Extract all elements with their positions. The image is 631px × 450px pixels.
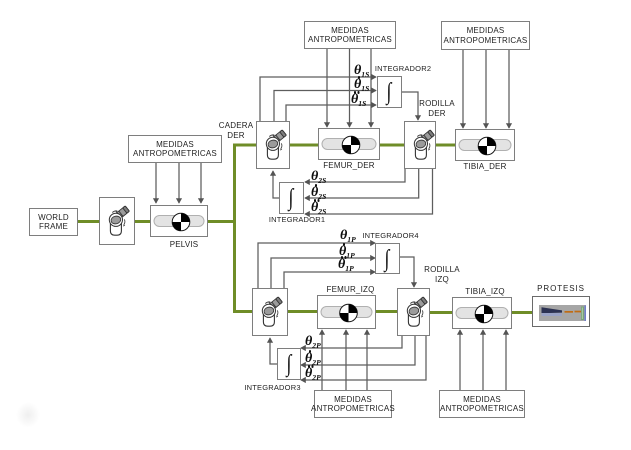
- label theta2S b: [311, 186, 326, 201]
- block TIBIA_DER body: [455, 129, 515, 161]
- block INTEGRADOR3: [277, 348, 301, 380]
- wire integrador3 to hip IZQ: [270, 338, 277, 364]
- green wire joint0 to pelvis: [135, 220, 150, 223]
- label TIBIA_DER: [455, 162, 515, 172]
- block PELVIS body: [150, 205, 208, 237]
- block knee DER joint: [404, 121, 436, 169]
- green wire pelvis to trunk split: [208, 220, 235, 223]
- label PELVIS: [155, 240, 213, 250]
- green wire world frame to joint0: [78, 220, 99, 223]
- block MEDIDAS femur IZQ: [314, 390, 392, 418]
- block hip IZQ joint: [252, 288, 288, 336]
- wires hip DER sensors to integrador2: [260, 77, 376, 121]
- label TIBIA_IZQ: [455, 287, 515, 297]
- wires medidas5 to tibia IZQ: [460, 330, 506, 390]
- label theta1S a: [354, 64, 369, 79]
- label CADERA DER: [217, 121, 255, 142]
- block FEMUR_IZQ body: [317, 295, 376, 329]
- wires medidas3 to pelvis: [156, 163, 201, 203]
- label FEMUR_IZQ: [321, 285, 380, 295]
- wires knee IZQ sensors to integrador3: [301, 336, 426, 380]
- wires knee DER sensors to integrador1: [305, 169, 433, 214]
- label theta1P c: [338, 258, 354, 273]
- block hip DER joint: [256, 121, 290, 169]
- label theta2P a: [305, 335, 321, 350]
- block joint0 ground joint: [99, 197, 135, 245]
- label theta2P c: [305, 367, 321, 382]
- block INTEGRADOR1: [279, 182, 304, 214]
- wire integrador4 to knee IZQ: [400, 257, 414, 287]
- green wire femur IZQ to knee IZQ: [376, 310, 397, 313]
- block MEDIDAS tibia DER: [441, 21, 530, 50]
- wires hip IZQ sensors to integrador4: [258, 243, 375, 288]
- faint smudge bottom left: [16, 402, 40, 428]
- label FEMUR_DER: [318, 161, 380, 171]
- green wire trunk to hip IZQ: [233, 310, 252, 313]
- green wire hip DER to femur DER: [290, 144, 318, 147]
- green wire knee DER to tibia DER: [436, 144, 455, 147]
- label INTEGRADOR3: [242, 383, 303, 393]
- label theta2S a: [311, 170, 326, 185]
- block MEDIDAS tibia IZQ: [439, 390, 525, 418]
- label PROTESIS: [532, 284, 590, 294]
- label theta2S c: [311, 201, 326, 216]
- block PROTESIS display: [532, 296, 590, 327]
- label INTEGRADOR2: [374, 64, 432, 74]
- wire integrador1 to hip DER: [273, 171, 279, 198]
- label INTEGRADOR1: [267, 215, 327, 225]
- label RODILLA IZQ: [422, 265, 462, 286]
- green wire femur DER to knee DER: [380, 144, 404, 147]
- block TIBIA_IZQ body: [452, 297, 512, 329]
- label theta1S c: [351, 93, 366, 108]
- block MEDIDAS pelvis: [128, 135, 222, 163]
- block knee IZQ joint: [397, 288, 430, 336]
- block MEDIDAS femur DER: [304, 21, 396, 49]
- green wire tibia IZQ to protesis: [512, 311, 532, 314]
- wire integrador2 to knee DER: [402, 92, 418, 120]
- block WORLD FRAME: [29, 208, 78, 236]
- label theta1S b: [354, 78, 369, 93]
- wires medidas4 to femur IZQ: [322, 330, 367, 390]
- label theta1P b: [339, 245, 355, 260]
- block INTEGRADOR4: [375, 243, 400, 274]
- green trunk vertical: [233, 144, 236, 314]
- green wire hip IZQ to femur IZQ: [288, 310, 317, 313]
- label theta2P b: [305, 352, 321, 367]
- block FEMUR_DER body: [318, 128, 380, 160]
- label RODILLA DER: [417, 99, 457, 120]
- wires medidas2 to tibia DER: [463, 50, 509, 128]
- green wire trunk to hip DER: [233, 144, 256, 147]
- label INTEGRADOR4: [361, 231, 420, 241]
- wires medidas1 to femur DER: [327, 49, 371, 127]
- label theta1P a: [340, 229, 356, 244]
- green wire knee IZQ to tibia IZQ: [430, 311, 452, 314]
- block INTEGRADOR2: [377, 76, 402, 108]
